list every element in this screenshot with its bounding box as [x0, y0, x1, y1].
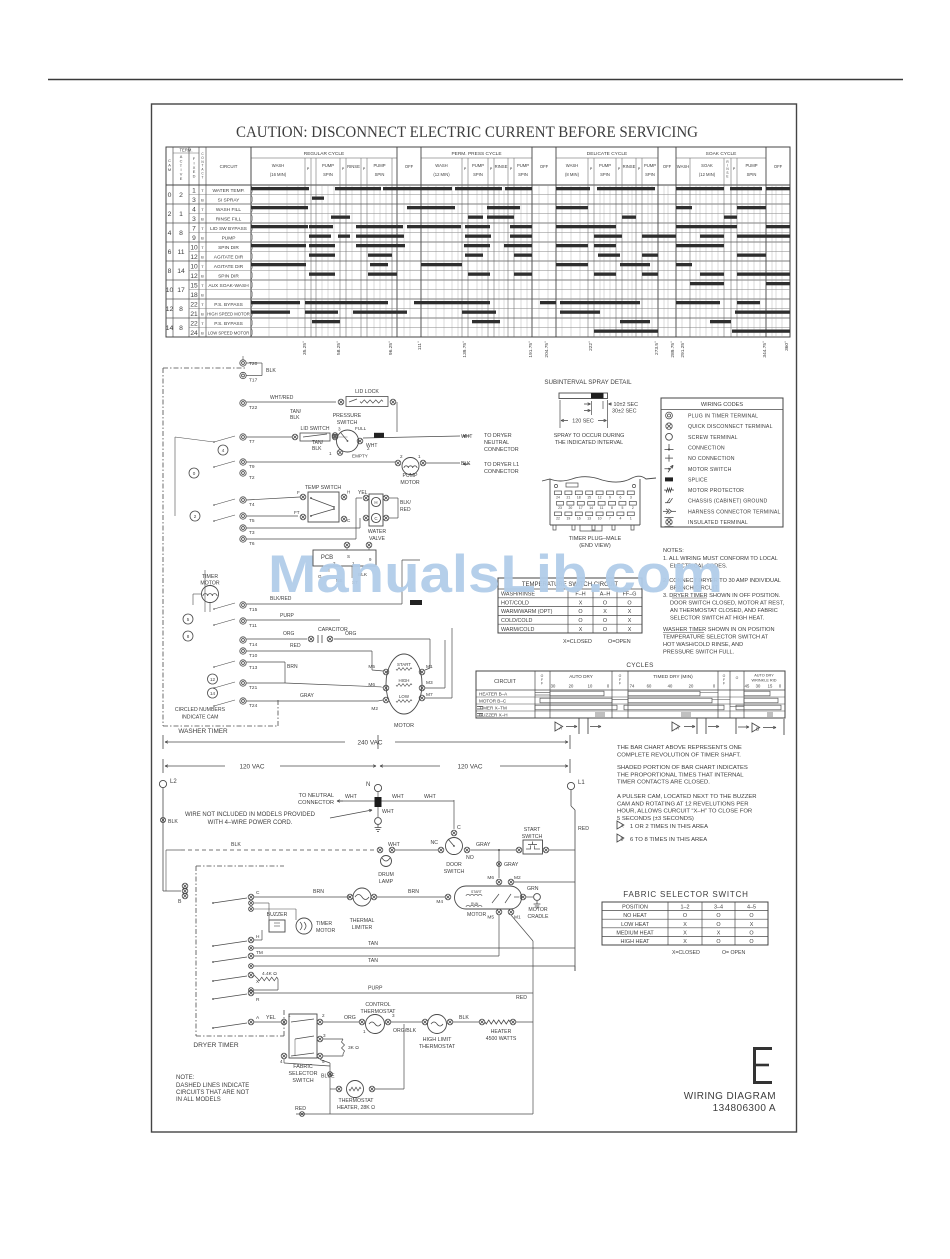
- svg-text:CRADLE: CRADLE: [527, 914, 549, 920]
- svg-text:WITH 4–WIRE POWER CORD.: WITH 4–WIRE POWER CORD.: [208, 820, 293, 826]
- svg-text:FABRIC SELECTOR SWITCH: FABRIC SELECTOR SWITCH: [623, 890, 748, 899]
- svg-text:HEATER, 28K Ω: HEATER, 28K Ω: [337, 1105, 375, 1111]
- svg-text:FULL: FULL: [355, 426, 367, 431]
- svg-text:BLK/: BLK/: [400, 500, 411, 506]
- svg-text:0: 0: [168, 192, 172, 199]
- svg-text:SPRAY TO OCCUR DURING: SPRAY TO OCCUR DURING: [554, 433, 625, 439]
- svg-text:HARNESS CONNECTOR TERMINAL: HARNESS CONNECTOR TERMINAL: [688, 509, 781, 515]
- svg-text:4–5: 4–5: [747, 905, 756, 911]
- svg-text:X=CLOSED: X=CLOSED: [672, 950, 700, 956]
- svg-text:291.25°: 291.25°: [680, 341, 686, 358]
- svg-text:LOW: LOW: [399, 694, 410, 699]
- svg-text:45: 45: [745, 684, 750, 689]
- svg-text:T2: T2: [249, 475, 255, 481]
- svg-text:15: 15: [587, 495, 591, 499]
- svg-text:AGITATE DIR: AGITATE DIR: [214, 254, 244, 260]
- svg-text:4: 4: [619, 516, 621, 520]
- svg-text:24: 24: [190, 330, 198, 337]
- svg-text:B: B: [201, 293, 204, 298]
- svg-text:GRAY: GRAY: [300, 693, 314, 699]
- svg-text:WASH FILL: WASH FILL: [216, 207, 241, 213]
- svg-text:SPIN DIR: SPIN DIR: [218, 273, 239, 279]
- svg-text:O: O: [578, 618, 582, 624]
- svg-text:PURP: PURP: [368, 986, 383, 992]
- svg-text:3: 3: [192, 216, 196, 223]
- svg-text:O=OPEN: O=OPEN: [608, 639, 631, 645]
- svg-text:3: 3: [192, 197, 196, 204]
- svg-text:SPIN: SPIN: [473, 172, 483, 177]
- svg-text:F: F: [541, 682, 543, 686]
- svg-text:14: 14: [210, 691, 216, 696]
- svg-text:M6: M6: [487, 875, 494, 881]
- svg-text:19: 19: [567, 516, 571, 520]
- svg-text:3: 3: [392, 1013, 395, 1018]
- svg-text:L1: L1: [578, 780, 585, 786]
- svg-text:P: P: [618, 167, 621, 171]
- svg-text:14: 14: [166, 325, 174, 332]
- svg-text:35.25°: 35.25°: [302, 341, 308, 355]
- svg-text:T21: T21: [249, 685, 258, 691]
- svg-text:TIMED DRY (MIN): TIMED DRY (MIN): [653, 674, 693, 680]
- svg-text:22: 22: [190, 321, 198, 328]
- svg-text:M2: M2: [371, 706, 378, 712]
- svg-text:BLK: BLK: [290, 415, 300, 421]
- svg-text:204.75°: 204.75°: [544, 341, 550, 358]
- svg-text:O: O: [749, 913, 753, 919]
- svg-text:M2: M2: [514, 875, 521, 881]
- svg-text:15: 15: [190, 283, 198, 290]
- svg-text:CIRCUIT: CIRCUIT: [494, 679, 517, 685]
- svg-text:ORG: ORG: [344, 1015, 356, 1021]
- svg-text:A PULSER CAM, LOCATED NEXT TO: A PULSER CAM, LOCATED NEXT TO THE BUZZER: [617, 794, 757, 800]
- svg-text:O: O: [716, 913, 720, 919]
- svg-text:SI SPRAY: SI SPRAY: [218, 197, 241, 203]
- svg-text:CIRCLED NUMBERS: CIRCLED NUMBERS: [175, 707, 226, 713]
- svg-text:16: 16: [577, 516, 581, 520]
- svg-text:GRAY: GRAY: [476, 842, 491, 848]
- svg-text:4: 4: [168, 230, 172, 237]
- svg-text:TEMP SWITCH: TEMP SWITCH: [305, 485, 341, 491]
- svg-text:TO NEUTRAL: TO NEUTRAL: [299, 793, 334, 799]
- svg-text:22: 22: [556, 516, 560, 520]
- svg-text:T14: T14: [249, 642, 258, 648]
- svg-text:F: F: [619, 682, 621, 686]
- svg-text:4: 4: [222, 448, 225, 453]
- svg-text:LOW SPEED MOTOR: LOW SPEED MOTOR: [208, 330, 250, 335]
- svg-text:3–4: 3–4: [714, 905, 723, 911]
- svg-text:TIMER CONTACTS ARE CLOSED.: TIMER CONTACTS ARE CLOSED.: [617, 780, 710, 786]
- svg-text:WIRE NOT INCLUDED IN MODEL: WIRE NOT INCLUDED IN MODELS PROVIDED: [185, 812, 316, 818]
- svg-text:N: N: [366, 782, 370, 788]
- svg-text:THE BAR CHART ABOVE REPRESENTS: THE BAR CHART ABOVE REPRESENTS ONE: [617, 745, 742, 751]
- svg-text:LID SW BYPASS: LID SW BYPASS: [210, 226, 247, 232]
- svg-text:360°: 360°: [784, 341, 790, 351]
- svg-text:SWITCH: SWITCH: [292, 1078, 313, 1084]
- svg-text:X: X: [683, 922, 687, 928]
- svg-text:139.75°: 139.75°: [462, 341, 468, 358]
- svg-text:PUMP: PUMP: [644, 163, 656, 168]
- svg-text:0: 0: [193, 471, 196, 476]
- svg-text:T6: T6: [249, 541, 255, 547]
- svg-text:18: 18: [577, 495, 581, 499]
- svg-text:13: 13: [587, 516, 591, 520]
- svg-text:THERMOSTAT: THERMOSTAT: [339, 1098, 375, 1104]
- svg-text:2: 2: [632, 506, 634, 510]
- svg-text:CONNECTOR: CONNECTOR: [484, 447, 519, 453]
- svg-text:WASH: WASH: [677, 164, 689, 169]
- svg-text:YEL: YEL: [266, 1015, 276, 1021]
- svg-text:5: 5: [621, 506, 623, 510]
- svg-text:TIMER: TIMER: [316, 921, 332, 927]
- svg-text:AN THERMOSTAT CLOSED, AND FABR: AN THERMOSTAT CLOSED, AND FABRIC: [670, 608, 778, 614]
- svg-text:PUMP: PUMP: [403, 473, 419, 479]
- svg-text:WARM/COLD: WARM/COLD: [501, 627, 534, 633]
- svg-text:23: 23: [558, 506, 562, 510]
- svg-text:O: O: [736, 676, 739, 680]
- svg-text:RED: RED: [516, 995, 527, 1001]
- svg-text:HOT WASH/COLD RINSE, AND: HOT WASH/COLD RINSE, AND: [663, 642, 743, 648]
- svg-text:BLK: BLK: [266, 368, 276, 374]
- svg-text:11: 11: [600, 506, 604, 510]
- svg-text:12: 12: [210, 677, 216, 682]
- svg-text:REGULAR CYCLE: REGULAR CYCLE: [304, 151, 345, 157]
- svg-text:H: H: [374, 500, 377, 505]
- svg-text:20: 20: [569, 506, 573, 510]
- svg-text:P: P: [342, 167, 345, 171]
- svg-text:TM: TM: [256, 950, 263, 956]
- svg-text:CONNECTOR: CONNECTOR: [298, 800, 334, 806]
- svg-text:WARM/WARM (OPT): WARM/WARM (OPT): [501, 609, 553, 615]
- svg-text:21: 21: [567, 495, 571, 499]
- svg-text:DELICATE CYCLE: DELICATE CYCLE: [587, 151, 627, 157]
- svg-text:8: 8: [179, 325, 183, 332]
- svg-text:HIGH SPEED MOTOR: HIGH SPEED MOTOR: [207, 311, 250, 316]
- svg-text:O: O: [603, 627, 607, 633]
- svg-text:WIRING DIAGRAM: WIRING DIAGRAM: [684, 1091, 776, 1102]
- svg-text:22: 22: [190, 302, 198, 309]
- svg-text:O: O: [603, 618, 607, 624]
- svg-text:P.S. BYPASS: P.S. BYPASS: [214, 302, 243, 308]
- svg-text:C: C: [256, 890, 260, 896]
- svg-text:BUZZER: BUZZER: [267, 912, 288, 918]
- svg-text:X: X: [628, 627, 632, 633]
- svg-text:12: 12: [190, 254, 198, 261]
- svg-text:M6: M6: [368, 682, 375, 688]
- svg-text:B: B: [201, 217, 204, 222]
- svg-text:LOW HEAT: LOW HEAT: [621, 922, 649, 928]
- svg-text:T4: T4: [249, 502, 255, 508]
- svg-text:PUMP: PUMP: [373, 163, 385, 168]
- svg-text:RINSE: RINSE: [347, 164, 360, 169]
- svg-text:2: 2: [322, 1013, 325, 1018]
- svg-text:OFF: OFF: [405, 164, 414, 169]
- svg-text:14: 14: [589, 506, 593, 510]
- svg-text:NEUTRAL: NEUTRAL: [484, 440, 509, 446]
- svg-text:MOTOR: MOTOR: [316, 928, 335, 934]
- svg-text:T: T: [202, 175, 204, 179]
- svg-text:T24: T24: [249, 703, 258, 709]
- svg-text:TO DRYER: TO DRYER: [484, 433, 512, 439]
- svg-text:273.5°: 273.5°: [654, 341, 660, 355]
- svg-text:WATER TEMP.: WATER TEMP.: [212, 188, 244, 194]
- svg-text:(8 MIN): (8 MIN): [565, 172, 580, 177]
- svg-text:10: 10: [190, 264, 198, 271]
- svg-text:11: 11: [177, 249, 184, 256]
- svg-text:O: O: [716, 939, 720, 945]
- svg-text:TAN: TAN: [368, 958, 378, 964]
- svg-text:X: X: [750, 922, 754, 928]
- svg-text:(12 MIN): (12 MIN): [699, 172, 716, 177]
- svg-text:WASH: WASH: [272, 163, 284, 168]
- svg-text:134806300 A: 134806300 A: [713, 1103, 776, 1114]
- svg-text:4.4K Ω: 4.4K Ω: [262, 971, 277, 977]
- svg-text:MEDIUM HEAT: MEDIUM HEAT: [616, 930, 654, 936]
- svg-text:THERMOSTAT: THERMOSTAT: [419, 1044, 456, 1050]
- svg-text:BRN: BRN: [408, 889, 419, 895]
- svg-text:MOTOR: MOTOR: [400, 480, 419, 486]
- svg-text:3: 3: [338, 427, 341, 432]
- svg-text:THE INDICATED INTERVAL: THE INDICATED INTERVAL: [555, 440, 623, 446]
- svg-text:9: 9: [609, 495, 611, 499]
- svg-text:P: P: [363, 167, 366, 171]
- svg-text:COMPLETE REVOLUTION OF TIMER S: COMPLETE REVOLUTION OF TIMER SHAFT.: [617, 752, 741, 758]
- svg-text:WIRING CODES: WIRING CODES: [701, 402, 744, 408]
- svg-text:CIRCUITS THAT ARE NOT: CIRCUITS THAT ARE NOT: [176, 1090, 249, 1096]
- svg-text:NOTE:: NOTE:: [176, 1075, 195, 1081]
- svg-text:P: P: [307, 167, 310, 171]
- svg-text:CAUTION: DISCONNECT ELECTRIC: CAUTION: DISCONNECT ELECTRIC CURRENT BEF…: [236, 124, 698, 141]
- svg-text:P: P: [590, 167, 593, 171]
- svg-text:TAN: TAN: [368, 941, 378, 947]
- svg-text:SPIN: SPIN: [323, 172, 333, 177]
- svg-text:8: 8: [179, 230, 183, 237]
- svg-text:THERMOSTAT: THERMOSTAT: [361, 1009, 397, 1015]
- svg-text:PRESSURE SWITCH FULL.: PRESSURE SWITCH FULL.: [663, 650, 735, 656]
- svg-text:17: 17: [177, 287, 185, 294]
- svg-text:THE PROPORTIONAL TIMES THAT IN: THE PROPORTIONAL TIMES THAT INTERNAL: [617, 772, 744, 778]
- svg-text:2: 2: [168, 211, 172, 218]
- svg-text:CIRCUIT: CIRCUIT: [220, 164, 238, 169]
- svg-text:X: X: [683, 930, 687, 936]
- svg-text:X: X: [717, 930, 721, 936]
- svg-text:F: F: [297, 490, 300, 495]
- svg-text:E: E: [726, 174, 728, 178]
- svg-text:20: 20: [689, 684, 694, 689]
- svg-text:1: 1: [363, 1029, 366, 1034]
- svg-text:BUZZER X–H: BUZZER X–H: [479, 712, 508, 717]
- svg-text:PUMP: PUMP: [322, 163, 334, 168]
- svg-text:PUMP: PUMP: [472, 163, 484, 168]
- svg-text:WHT: WHT: [461, 434, 472, 440]
- svg-text:17: 17: [579, 506, 583, 510]
- svg-text:P: P: [638, 167, 641, 171]
- svg-text:SOAK: SOAK: [701, 163, 713, 168]
- svg-text:BLUE: BLUE: [321, 1074, 335, 1080]
- svg-text:HIGH: HIGH: [399, 678, 410, 683]
- svg-text:RINSE: RINSE: [623, 164, 636, 169]
- svg-text:SELECTOR SWITCH AT HIGH HEAT.: SELECTOR SWITCH AT HIGH HEAT.: [670, 616, 765, 622]
- svg-text:3: 3: [630, 495, 632, 499]
- svg-text:CAPACITOR: CAPACITOR: [318, 627, 348, 633]
- svg-text:SPLICE: SPLICE: [688, 477, 708, 483]
- svg-text:HIGH HEAT: HIGH HEAT: [621, 939, 651, 945]
- svg-text:X: X: [579, 627, 583, 633]
- svg-text:RED: RED: [578, 826, 589, 832]
- svg-text:SPIN: SPIN: [375, 172, 385, 177]
- svg-text:T5: T5: [249, 518, 255, 524]
- svg-text:SWITCH: SWITCH: [522, 834, 543, 840]
- svg-text:D: D: [193, 174, 196, 179]
- svg-text:4500 WATTS: 4500 WATTS: [486, 1036, 517, 1042]
- svg-text:5: 5: [187, 617, 190, 622]
- svg-text:BLK: BLK: [168, 819, 178, 825]
- svg-text:10: 10: [190, 245, 198, 252]
- svg-text:QUICK DISCONNECT TERMINAL: QUICK DISCONNECT TERMINAL: [688, 424, 773, 430]
- svg-text:CYCLES: CYCLES: [626, 662, 653, 669]
- svg-text:ManualsLib.com: ManualsLib.com: [268, 545, 723, 604]
- svg-text:SPIN: SPIN: [747, 172, 757, 177]
- svg-text:120 SEC: 120 SEC: [572, 419, 594, 425]
- svg-text:4: 4: [192, 207, 196, 214]
- svg-text:WATER: WATER: [368, 529, 386, 535]
- svg-text:T10: T10: [249, 653, 258, 659]
- svg-text:(12 MIN): (12 MIN): [433, 172, 450, 177]
- svg-text:M5: M5: [487, 915, 494, 921]
- svg-text:P: P: [510, 167, 513, 171]
- svg-text:B: B: [201, 236, 204, 241]
- svg-text:ORG: ORG: [345, 631, 357, 637]
- svg-text:START: START: [524, 827, 541, 833]
- svg-text:344.75°: 344.75°: [762, 341, 768, 358]
- svg-text:30: 30: [756, 684, 761, 689]
- svg-text:C: C: [457, 825, 461, 831]
- svg-text:AUX SOAK-WASH: AUX SOAK-WASH: [208, 283, 249, 289]
- svg-text:P.S. BYPASS: P.S. BYPASS: [214, 321, 243, 327]
- svg-text:240 VAC: 240 VAC: [357, 740, 382, 747]
- svg-text:START: START: [397, 662, 411, 667]
- svg-text:MOTOR: MOTOR: [528, 907, 547, 913]
- svg-text:DRUM: DRUM: [378, 872, 394, 878]
- svg-text:TO DRYER L1: TO DRYER L1: [484, 462, 519, 468]
- svg-text:CONNECTOR: CONNECTOR: [484, 469, 519, 475]
- svg-text:111°: 111°: [417, 341, 423, 350]
- svg-text:COLD/COLD: COLD/COLD: [501, 618, 533, 624]
- svg-text:21: 21: [190, 311, 198, 318]
- svg-text:LIMITER: LIMITER: [352, 925, 373, 931]
- svg-text:DRYER TIMER: DRYER TIMER: [193, 1042, 238, 1049]
- svg-text:8: 8: [187, 634, 190, 639]
- svg-text:E: E: [180, 176, 183, 181]
- svg-text:60: 60: [647, 684, 652, 689]
- svg-text:MOTOR SWITCH: MOTOR SWITCH: [688, 467, 732, 473]
- svg-text:SWITCH: SWITCH: [444, 869, 465, 875]
- svg-text:58.25°: 58.25°: [336, 341, 342, 355]
- svg-text:T17: T17: [249, 378, 258, 384]
- svg-text:X: X: [683, 939, 687, 945]
- svg-text:H: H: [256, 934, 260, 940]
- svg-text:P: P: [464, 167, 467, 171]
- svg-text:F: F: [723, 682, 725, 686]
- svg-text:WHT: WHT: [345, 794, 358, 800]
- svg-text:BLK: BLK: [231, 842, 241, 848]
- svg-text:WASHER TIMER SHOWN IN ON POSIT: WASHER TIMER SHOWN IN ON POSITION: [663, 627, 775, 633]
- svg-text:2: 2: [179, 192, 183, 199]
- svg-text:WHT: WHT: [392, 794, 405, 800]
- svg-text:WHT: WHT: [388, 842, 401, 848]
- svg-text:12: 12: [598, 495, 602, 499]
- svg-text:O: O: [749, 930, 753, 936]
- svg-text:M4: M4: [436, 899, 443, 905]
- svg-text:INDICATE CAM: INDICATE CAM: [182, 715, 219, 721]
- svg-text:7: 7: [192, 226, 196, 233]
- svg-text:RINSE: RINSE: [495, 164, 508, 169]
- svg-text:1: 1: [418, 454, 421, 459]
- svg-text:T20: T20: [249, 361, 258, 367]
- svg-text:L2: L2: [170, 779, 177, 785]
- svg-text:A: A: [621, 824, 624, 829]
- svg-text:B: B: [201, 274, 204, 279]
- svg-text:X: X: [603, 609, 607, 615]
- svg-text:X: X: [628, 609, 632, 615]
- svg-text:WHT: WHT: [424, 794, 437, 800]
- svg-text:7: 7: [609, 516, 611, 520]
- svg-text:M7: M7: [426, 692, 433, 698]
- svg-text:6: 6: [619, 495, 621, 499]
- svg-text:P: P: [733, 167, 736, 171]
- svg-text:SPIN DIR: SPIN DIR: [218, 245, 239, 251]
- svg-text:POSITION: POSITION: [622, 905, 648, 911]
- svg-text:H: H: [347, 490, 350, 495]
- svg-text:8: 8: [168, 268, 172, 275]
- svg-text:120 VAC: 120 VAC: [457, 764, 482, 771]
- svg-text:B: B: [756, 727, 759, 732]
- svg-text:6 TO 8 TIMES IN THIS AREA: 6 TO 8 TIMES IN THIS AREA: [630, 837, 707, 843]
- svg-text:TIMER: TIMER: [202, 574, 218, 580]
- svg-text:O: O: [683, 913, 687, 919]
- svg-text:CONTROL: CONTROL: [365, 1002, 390, 1008]
- svg-text:SUBINTERVAL SPRAY DETAIL: SUBINTERVAL SPRAY DETAIL: [544, 379, 632, 386]
- svg-text:WASH: WASH: [435, 163, 447, 168]
- svg-text:MOTOR: MOTOR: [394, 723, 414, 729]
- svg-text:3K Ω: 3K Ω: [348, 1045, 359, 1051]
- svg-text:SELECTOR: SELECTOR: [289, 1071, 318, 1077]
- svg-text:MOTOR B–C: MOTOR B–C: [479, 698, 507, 703]
- svg-text:BLK: BLK: [459, 1015, 469, 1021]
- svg-text:1 OR 2 TIMES IN THIS AREA: 1 OR 2 TIMES IN THIS AREA: [630, 824, 708, 830]
- svg-text:T7: T7: [249, 439, 255, 445]
- svg-text:PLUG IN TIMER TERMINAL: PLUG IN TIMER TERMINAL: [688, 414, 758, 420]
- svg-text:289.75°: 289.75°: [670, 341, 676, 358]
- svg-text:SPIN: SPIN: [645, 172, 655, 177]
- svg-text:NO: NO: [466, 855, 474, 861]
- svg-text:FT: FT: [294, 510, 300, 515]
- svg-text:X=CLOSED: X=CLOSED: [563, 639, 592, 645]
- svg-text:12: 12: [190, 273, 198, 280]
- svg-text:NC: NC: [431, 840, 439, 846]
- svg-text:IN ALL MODELS: IN ALL MODELS: [176, 1097, 221, 1103]
- svg-text:WHT: WHT: [382, 809, 395, 815]
- svg-text:10±2 SEC: 10±2 SEC: [614, 402, 639, 408]
- svg-text:CHASSIS (CABINET) GROUND: CHASSIS (CABINET) GROUND: [688, 499, 768, 505]
- svg-text:B: B: [178, 899, 182, 905]
- svg-text:5: 5: [322, 1059, 325, 1064]
- svg-text:T11: T11: [249, 623, 257, 629]
- svg-text:10: 10: [588, 684, 593, 689]
- svg-text:SOAK CYCLE: SOAK CYCLE: [706, 151, 737, 157]
- svg-text:OFF: OFF: [540, 164, 549, 169]
- svg-text:2: 2: [400, 454, 403, 459]
- svg-text:1: 1: [329, 451, 332, 456]
